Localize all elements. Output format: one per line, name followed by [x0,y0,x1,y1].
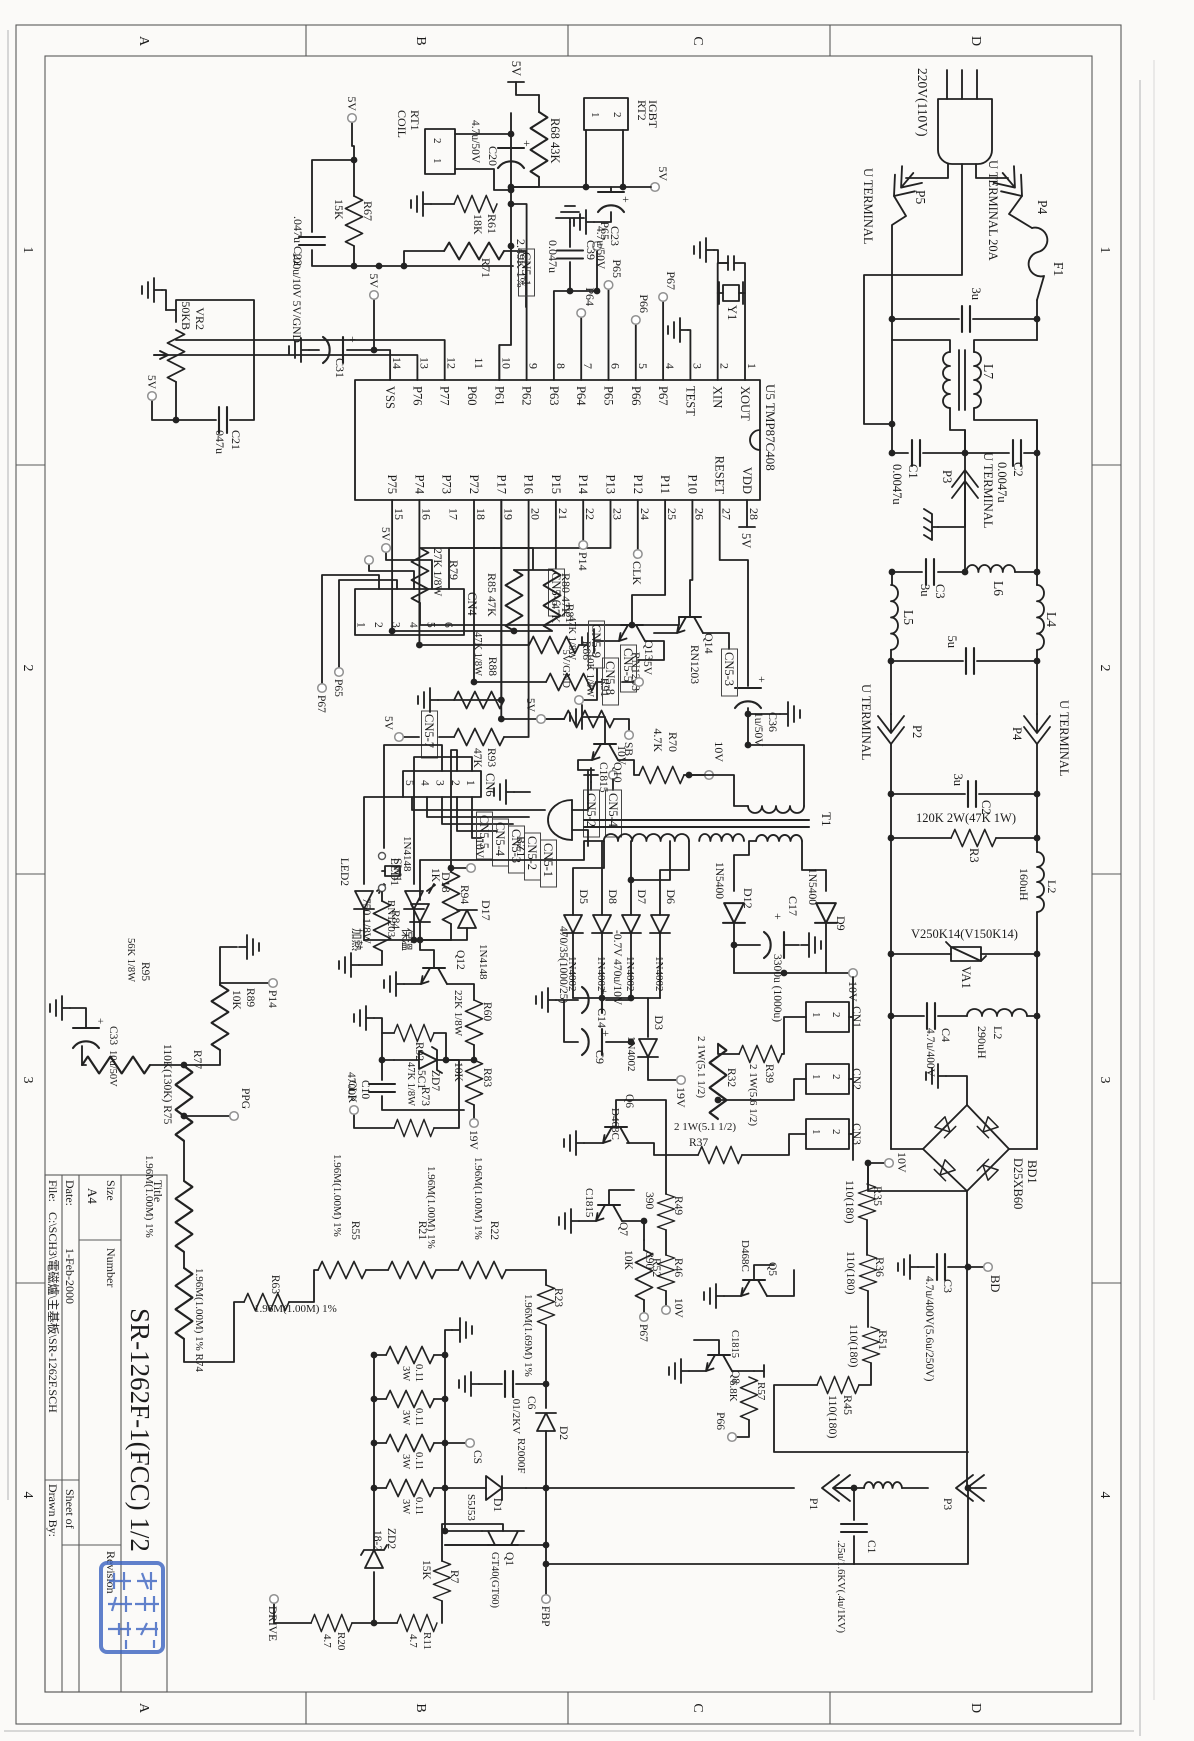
svg-text:L6: L6 [991,581,1006,596]
svg-text:1-Feb-2000: 1-Feb-2000 [63,1248,77,1304]
resistor R20 4.7 vertical [311,1615,352,1632]
boxed net label CN5-5 [621,645,637,692]
transformer T1 core [584,820,809,827]
boxed net label CN5-2 fan [525,833,541,880]
svg-text:C1: C1 [865,1540,877,1554]
wire R73 to CLK stub [354,1115,394,1128]
svg-text:2: 2 [718,363,732,369]
svg-text:18K: 18K [471,214,485,235]
wire pin23 down to R79 [420,500,611,548]
pin 19V right of R83 [473,1105,475,1118]
svg-text:2: 2 [20,665,35,672]
transistor Q14 RN1203 [677,617,703,633]
svg-text:1: 1 [1097,247,1112,254]
svg-text:ZD2: ZD2 [385,1528,397,1549]
wire P5 to bottom rail [892,196,906,340]
svg-text:110(180): 110(180) [844,1251,858,1295]
choke L7 bottom winding [892,340,950,352]
svg-text:+: + [771,913,785,920]
resistor R52 10K [643,1240,645,1250]
svg-text:0.0047u: 0.0047u [995,462,1009,503]
svg-text:D468C: D468C [739,1240,751,1272]
stub 5V/GND [584,669,597,700]
svg-text:27: 27 [720,508,734,520]
svg-text:Size: Size [104,1180,118,1201]
capacitor 5u [891,650,1037,661]
svg-text:25: 25 [665,508,679,520]
svg-text:1.96M(1.00M) 1%: 1.96M(1.00M) 1% [331,1154,343,1237]
Q10 emitter wire [578,760,594,770]
transistor Q6 D468C [603,1127,629,1143]
resistor R71 2.49K 1% [444,243,504,260]
svg-text:R52: R52 [650,1258,662,1277]
crystal load caps to ground [718,263,745,293]
svg-text:F1: F1 [1051,262,1066,276]
svg-text:XOUT: XOUT [738,386,752,421]
svg-text:R35: R35 [871,1186,885,1206]
svg-text:Q13: Q13 [642,640,656,661]
transistor Q1 IGBT GT40(GT60) [488,1544,518,1546]
svg-text:.25u/1.6KV(.4u/1KV): .25u/1.6KV(.4u/1KV) [835,1540,846,1634]
ground left of R89 [220,947,237,983]
wire pin25 to Q13 base [632,500,665,625]
svg-text:12: 12 [445,357,459,369]
svg-text:4: 4 [20,1492,35,1499]
svg-text:B: B [413,36,428,45]
svg-text:10V: 10V [895,1152,909,1173]
wire C36 to transformer node [747,708,749,745]
earth ground at bridge AC [946,1076,967,1105]
capacitor C33 10u/50V [81,1046,83,1065]
earth below buzzer [514,791,530,793]
svg-text:0.047u: 0.047u [546,240,560,273]
terminal P5 [884,165,923,205]
svg-text:C31: C31 [333,358,347,378]
svg-text:1N4002: 1N4002 [595,956,607,991]
svg-text:P64: P64 [574,386,588,406]
svg-text:C3: C3 [933,584,947,599]
boxed net label CN5-1 [519,249,535,296]
svg-text:P72: P72 [467,475,481,494]
svg-text:XIN: XIN [711,386,725,408]
wire P4 to fuse F1 [1009,196,1032,228]
svg-text:P65: P65 [602,386,616,405]
svg-text:L2: L2 [1045,880,1059,893]
ground Q6 emitter [564,1131,584,1155]
shunt resistor 0.11 3W #2 [386,1391,434,1408]
AC plug J1 220V(110V) [938,99,992,164]
svg-text:CN5-1: CN5-1 [519,252,533,286]
svg-text:.047u: .047u [291,216,305,243]
diode D7 1N4002 [621,915,641,933]
svg-text:C: C [690,1703,705,1712]
svg-text:4.7u/50V: 4.7u/50V [469,120,481,164]
svg-text:5V: 5V [509,61,523,76]
svg-text:R7: R7 [448,1570,460,1584]
terminal P1 work coil [834,1487,854,1489]
Q8 wiring [689,1340,754,1371]
svg-text:D7: D7 [635,889,649,904]
svg-text:23: 23 [611,508,625,520]
Q1 gate wire from R7 [442,1524,503,1561]
capacitor C23 4.7u/50V on rail [598,191,624,193]
svg-text:U TERMINAL: U TERMINAL [861,168,875,245]
power 5V for R68 [516,82,539,95]
wire P1 down to D1 node [546,1487,794,1489]
wire CN5-1 down to R67/C22 [354,265,513,267]
svg-text:C36: C36 [766,712,780,732]
wire pin20 to R93 [504,500,529,737]
junction drive rail [352,1622,397,1624]
svg-text:P74: P74 [412,475,426,495]
svg-text:C6: C6 [525,1396,537,1410]
svg-text:R20: R20 [335,1632,347,1651]
svg-text:COIL: COIL [395,110,409,138]
svg-text:+: + [597,988,611,995]
svg-text:110(180): 110(180) [826,1395,840,1439]
svg-text:2: 2 [1097,665,1112,672]
svg-text:P14: P14 [576,475,590,495]
inductor L2 290uH [1034,1013,1041,1020]
svg-text:D6: D6 [664,889,678,904]
svg-text:U TERMINAL: U TERMINAL [981,452,995,529]
svg-text:10K: 10K [622,1250,634,1271]
pin PPG [181,1113,188,1120]
svg-text:P67: P67 [664,271,678,290]
inductor L4 on top rail [1036,572,1038,585]
boxed net label CN5-8 [596,681,602,683]
thermistor RT2 IGBT box [584,98,628,130]
resistor R83 10K [473,1045,475,1060]
svg-text:R71: R71 [479,258,493,278]
ground Q10 base side [590,717,605,744]
diode D12 1N5400 [723,903,745,923]
svg-text:BD1: BD1 [1025,1160,1039,1184]
svg-text:D1: D1 [491,1498,503,1512]
boxed net label CN5-9 [579,644,586,646]
ground at R92 C10 [374,1018,382,1033]
transistor Q13 RN1203 [619,625,645,641]
svg-text:P4: P4 [1010,727,1024,741]
terminal P4 right [1024,714,1050,744]
svg-text:Sheet of: Sheet of [63,1489,77,1529]
svg-text:A: A [136,36,151,47]
resistor R67 15K [352,123,354,196]
svg-text:CN5-5: CN5-5 [621,648,635,682]
svg-text:13: 13 [417,357,431,369]
svg-text:10K: 10K [230,990,242,1011]
svg-text:4: 4 [1097,1492,1112,1499]
svg-text:R39: R39 [763,1064,775,1083]
choke L7 top winding [974,340,1037,352]
svg-text:2: 2 [372,622,384,628]
svg-text:5V/GND: 5V/GND [560,650,571,689]
svg-text:C14: C14 [595,1008,609,1028]
svg-text:+: + [520,140,534,147]
svg-text:IGBT: IGBT [646,100,660,129]
svg-text:Q1: Q1 [503,1552,515,1566]
svg-text:20: 20 [529,508,543,520]
svg-text:19V: 19V [674,1087,688,1108]
svg-text:RN1203: RN1203 [688,645,700,684]
svg-text:+: + [619,196,633,203]
svg-text:CS: CS [471,1450,483,1464]
svg-text:3u: 3u [969,288,983,301]
diode D2 R2000F [536,1413,556,1431]
connector CN1 [806,1002,849,1032]
svg-text:2 1W(5.6 1/2): 2 1W(5.6 1/2) [747,1064,759,1126]
svg-text:VA1: VA1 [959,966,973,989]
Q6 wiring [584,1119,698,1155]
resistor R70 4.7K [639,767,684,784]
svg-text:18: 18 [474,508,488,520]
svg-text:1: 1 [464,780,476,786]
resistor R77 110K(130K) [176,1066,193,1141]
svg-text:P76: P76 [410,386,424,405]
svg-text:3W: 3W [400,1410,411,1425]
mid rail [964,430,966,572]
svg-text:R45: R45 [841,1395,855,1415]
resistor R89 10K [212,985,229,1050]
ground below R88 [438,699,454,701]
svg-text:Q14: Q14 [702,633,716,654]
stub 10V at R94 [448,865,455,872]
resistor R22 1.96M vertical [458,1262,506,1279]
switch SW1 [384,745,442,848]
svg-text:220V(110V): 220V(110V) [915,68,930,137]
svg-text:2: 2 [611,112,623,118]
svg-text:RN1203: RN1203 [385,900,397,938]
capacitor C6 .01/2KV [516,1383,546,1385]
svg-text:P14: P14 [576,552,590,571]
svg-text:4: 4 [407,622,419,628]
buzzer leads [572,770,588,846]
svg-text:24: 24 [638,508,652,520]
svg-text:2: 2 [830,1129,842,1135]
svg-text:CLK: CLK [630,561,644,585]
terminal P3 earth tap [952,470,978,500]
svg-text:Q6: Q6 [623,1094,635,1108]
svg-text:0.11: 0.11 [413,1408,424,1426]
svg-text:R51: R51 [876,1330,890,1350]
svg-text:10: 10 [499,357,513,369]
svg-text:P66: P66 [629,386,643,405]
svg-text:3: 3 [20,1077,35,1084]
wire pin26 to Q14 base [690,500,692,617]
svg-text:R3: R3 [967,848,981,863]
net stub P65 to C39 node [567,288,574,295]
svg-text:R32: R32 [725,1068,737,1087]
resistor R93 47K [454,729,504,746]
net stub CLK at pin24 [637,500,639,549]
svg-text:P75: P75 [385,475,399,494]
svg-text:18-2: 18-2 [371,1530,383,1551]
zener ZD7 5C1 [438,1059,474,1061]
svg-text:FBP: FBP [539,1606,551,1626]
resistor R95 56K 1/8W vertical [82,1057,150,1074]
resistor R46 390 [665,1230,667,1255]
svg-text:R2000F: R2000F [515,1438,527,1473]
svg-text:R83: R83 [481,1068,493,1087]
Q12 collector to R60 [447,984,474,1000]
transformer T1 secondary winding S2 [699,834,744,841]
svg-text:R93: R93 [485,748,497,767]
svg-text:C4: C4 [939,1028,953,1042]
svg-text:110(180): 110(180) [847,1324,861,1368]
transistor Q5 D468C [741,1280,767,1296]
svg-text:50KB: 50KB [179,301,193,330]
terminal P3 work coil [956,1475,986,1501]
svg-text:BD: BD [988,1275,1002,1292]
ground Q7 [579,1220,596,1222]
svg-text:D3: D3 [652,1015,666,1030]
ground at shunt rail left [445,1330,452,1355]
shunt rail bottom [373,1355,375,1488]
connector CN4 [355,589,464,635]
pin P14 at R89 left [220,983,268,985]
svg-text:2: 2 [830,1074,842,1080]
svg-text:17: 17 [447,508,461,520]
resistor R88 47K 1/8W [454,692,504,709]
svg-text:Date:: Date: [63,1180,77,1206]
shunt resistor wires [374,1355,445,1488]
svg-text:19V: 19V [467,1130,479,1151]
wire C1 column down to FBP node [546,1563,854,1565]
wire plug to P5 branch [906,164,948,178]
svg-text:3300u (1000u): 3300u (1000u) [771,954,783,1022]
svg-text:A: A [136,1703,151,1714]
svg-text:PPG: PPG [239,1088,251,1109]
capacitor C2 3u snubber [1034,791,1041,798]
boxed net label CN5-4 fan [493,819,509,866]
svg-text:4.7u/400V(5.6u/250V): 4.7u/400V(5.6u/250V) [923,1276,935,1382]
svg-text:P10: P10 [685,475,699,494]
svg-text:1: 1 [810,1012,822,1018]
pin BD and capacitor C3 4.7u/400V(5.6u/250V) [965,1264,972,1271]
pin7 stub P64 [580,318,582,380]
stub 5V below C21 [152,400,176,420]
wire CN2 CN3 bottoms [718,1079,806,1155]
connector CN3 [806,1119,849,1149]
svg-text:D17: D17 [479,900,493,921]
svg-text:D12: D12 [741,888,755,909]
capacitor C22 .047u [312,160,354,232]
inductor L5 on bottom rail [891,572,893,585]
svg-text:D468C: D468C [609,1108,621,1140]
transistor Q8 C1815 [706,1355,732,1371]
wire R71 top to pin8 node [504,251,526,307]
inductor L2 160uH on top rail [1037,852,1044,912]
svg-text:1N5400: 1N5400 [806,868,818,905]
svg-text:Drawn By:: Drawn By: [46,1484,60,1537]
Q10 collector to R70 [618,760,639,775]
svg-text:CN5-8: CN5-8 [603,661,617,695]
svg-text:47K 1/8W: 47K 1/8W [405,1062,416,1106]
power bar 5V at pin28 VDD [746,500,748,527]
svg-text:1.96M(1.00M) 1%: 1.96M(1.00M) 1% [254,1303,337,1315]
stub 5V above CN5-8 [622,681,634,683]
svg-text:1: 1 [355,622,367,628]
svg-text:P66: P66 [714,1412,726,1430]
svg-text:R60: R60 [481,1002,493,1021]
svg-text:T1: T1 [819,812,834,826]
svg-text:CN5-7: CN5-7 [422,714,436,748]
wire P2 onward to bottom rail east [890,744,892,1149]
svg-text:VSS: VSS [383,386,397,409]
svg-text:D8: D8 [606,889,620,904]
svg-text:R70: R70 [666,732,680,752]
svg-text:R88: R88 [486,657,498,676]
svg-text:P73: P73 [440,475,454,494]
LED1 keep-warm indicator [414,757,472,884]
svg-text:1N4002: 1N4002 [624,956,636,991]
svg-text:9: 9 [527,363,541,369]
svg-text:VDD: VDD [740,467,754,494]
choke L7 core lines [959,350,965,410]
svg-text:1N4002: 1N4002 [653,956,665,991]
svg-text:2: 2 [431,138,443,144]
svg-text:5V: 5V [367,273,381,288]
svg-text:5V: 5V [739,533,753,548]
svg-text:R80 47K: R80 47K [559,573,573,617]
10V rectifier join [734,972,826,974]
svg-text:R67: R67 [361,201,375,221]
wire to terminal P4 second [1036,661,1038,714]
svg-text:10u/50V: 10u/50V [107,1050,118,1087]
wire top rail to C2 column [1036,300,1038,340]
svg-text:6.8K: 6.8K [727,1380,739,1402]
svg-text:0.11: 0.11 [413,1364,424,1382]
pin5 stub P66 [635,325,637,380]
transistor Q7 C1815 [596,1205,622,1221]
resistor R84 750 1/8W [381,892,383,901]
svg-text:1: 1 [745,363,759,369]
svg-text:3: 3 [390,622,402,628]
resistor R57 6.8K [754,1371,764,1377]
svg-text:19: 19 [501,508,515,520]
S3 leads to diode stack [660,841,689,915]
svg-text:390: 390 [643,1192,655,1210]
wire Q14 emitter join [654,632,677,634]
svg-text:P2: P2 [910,725,924,738]
diode D3 1N4002 [647,998,649,1037]
resistor R45 110(180) [817,1377,859,1394]
resistor R63 1.96M vertical [244,1294,289,1311]
svg-text:C17: C17 [786,896,800,916]
svg-text:3u: 3u [918,584,932,597]
capacitor C1 0.0047u line filter [892,452,965,454]
svg-text:10K: 10K [452,1062,464,1083]
resistor R68 43K [538,95,540,112]
svg-text:P4: P4 [1035,200,1050,215]
svg-text:Revision: Revision [104,1551,118,1594]
svg-text:21: 21 [556,508,570,520]
junction top rail / 3u cap [1034,316,1041,323]
svg-text:C20: C20 [486,146,500,166]
diode D9 1N5400 [815,903,837,923]
svg-text:3: 3 [1097,1077,1112,1084]
microcontroller U5 TMP87C408 [355,380,760,500]
CN6 fan-out wires to CN5 labels [412,797,545,838]
resistor R60 22K 1/8W [466,1000,483,1045]
resistor R11 4.7 vertical [397,1615,437,1632]
svg-text:3W: 3W [400,1499,411,1514]
svg-text:BZ1: BZ1 [514,836,528,857]
svg-text:10V: 10V [473,838,485,859]
svg-text:C33: C33 [107,1026,119,1045]
svg-text:R63: R63 [269,1275,281,1294]
svg-text:R22: R22 [488,1221,500,1240]
